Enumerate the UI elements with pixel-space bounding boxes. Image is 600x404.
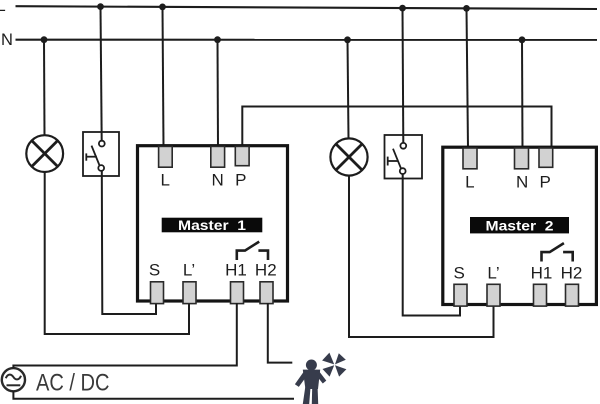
junction N / U1 pin N <box>214 36 221 43</box>
svg-text:H1: H1 <box>531 263 553 282</box>
svg-text:S: S <box>454 263 465 282</box>
wire U1 H2 sensor output <box>268 303 293 363</box>
wire L bus <box>16 6 598 9</box>
svg-text:N: N <box>211 171 223 190</box>
name plate Master 2 <box>470 217 569 234</box>
svg-text:N: N <box>1 31 13 49</box>
lamp E1 <box>26 135 63 172</box>
terminal U1 P <box>235 146 249 165</box>
svg-text:N: N <box>516 172 528 191</box>
wire lamp E2 to U2 pin L' <box>349 176 494 337</box>
device U2 Master 2 enclosure <box>443 147 597 304</box>
terminal U2 S <box>454 284 467 306</box>
svg-text:L’: L’ <box>487 263 499 282</box>
svg-text:Master 2: Master 2 <box>486 218 554 234</box>
junction L / switch S2 <box>399 5 406 12</box>
svg-text:AC / DC: AC / DC <box>36 369 110 396</box>
terminal U1 L' <box>183 282 196 304</box>
wire L bus to U2 pin L <box>467 8 469 148</box>
junction L / switch S1 <box>97 3 104 10</box>
svg-text:L: L <box>0 0 6 15</box>
wire switch S2 to U2 pin S <box>403 174 460 316</box>
junction N / lamp E2 <box>344 36 351 43</box>
wire L bus to U1 pin L <box>163 7 164 147</box>
terminal U1 H2 <box>260 282 273 304</box>
name plate Master 1 <box>162 218 263 234</box>
wire U1 H1 to AC/DC positive rail <box>236 303 238 365</box>
terminal U1 S <box>151 282 164 304</box>
lamp E2 <box>330 138 367 175</box>
wire L bus to switch S1 <box>101 7 102 141</box>
wire lamp E1 to U1 pin L' <box>45 172 189 334</box>
person motion icon <box>295 360 326 404</box>
wire N bus to U2 pin N <box>521 40 524 149</box>
pushbutton S2 <box>385 135 423 179</box>
svg-text:L’: L’ <box>183 261 195 280</box>
relay contact U1 H1-H2 <box>237 242 268 260</box>
wire U1 pin P to U2 pin P <box>242 107 551 149</box>
svg-text:H1: H1 <box>225 261 247 280</box>
wire N bus to U1 pin N <box>217 40 220 147</box>
terminal U2 H1 <box>534 284 547 306</box>
pushbutton S1 <box>83 132 119 176</box>
svg-text:L: L <box>465 172 474 191</box>
terminal U1 N <box>211 146 225 167</box>
wire N bus to lamp E1 <box>43 40 46 136</box>
wire switch S1 to U1 pin S <box>102 171 156 314</box>
motion star <box>322 353 346 377</box>
terminal U2 N <box>515 148 529 169</box>
junction N / lamp E1 <box>41 36 48 43</box>
svg-text:P: P <box>235 171 246 190</box>
terminal U1 H1 <box>231 282 244 304</box>
relay contact U2 H1-H2 <box>542 243 573 261</box>
power supply AC/DC <box>2 368 25 391</box>
svg-text:L: L <box>160 171 169 190</box>
device U1 Master 1 enclosure <box>138 146 288 301</box>
junction L / U1 pin L <box>159 4 166 11</box>
terminal U2 H2 <box>566 284 579 306</box>
wire N bus <box>16 39 598 41</box>
wire L bus to switch S2 <box>402 8 405 143</box>
terminal U2 L' <box>487 284 500 306</box>
terminal U2 P <box>539 148 553 167</box>
wire AC/DC negative rail <box>13 391 294 399</box>
terminal U2 L <box>463 148 477 169</box>
wire N bus to lamp E2 <box>348 40 349 139</box>
svg-text:P: P <box>540 172 551 191</box>
svg-text:S: S <box>149 261 160 280</box>
svg-text:H2: H2 <box>561 263 583 282</box>
terminal U1 L <box>159 146 173 167</box>
junction L / U2 pin L <box>463 5 470 12</box>
junction N / U2 pin N <box>519 36 526 43</box>
svg-text:H2: H2 <box>255 261 277 280</box>
svg-text:Master 1: Master 1 <box>178 218 246 234</box>
wire AC/DC positive rail <box>13 366 237 369</box>
